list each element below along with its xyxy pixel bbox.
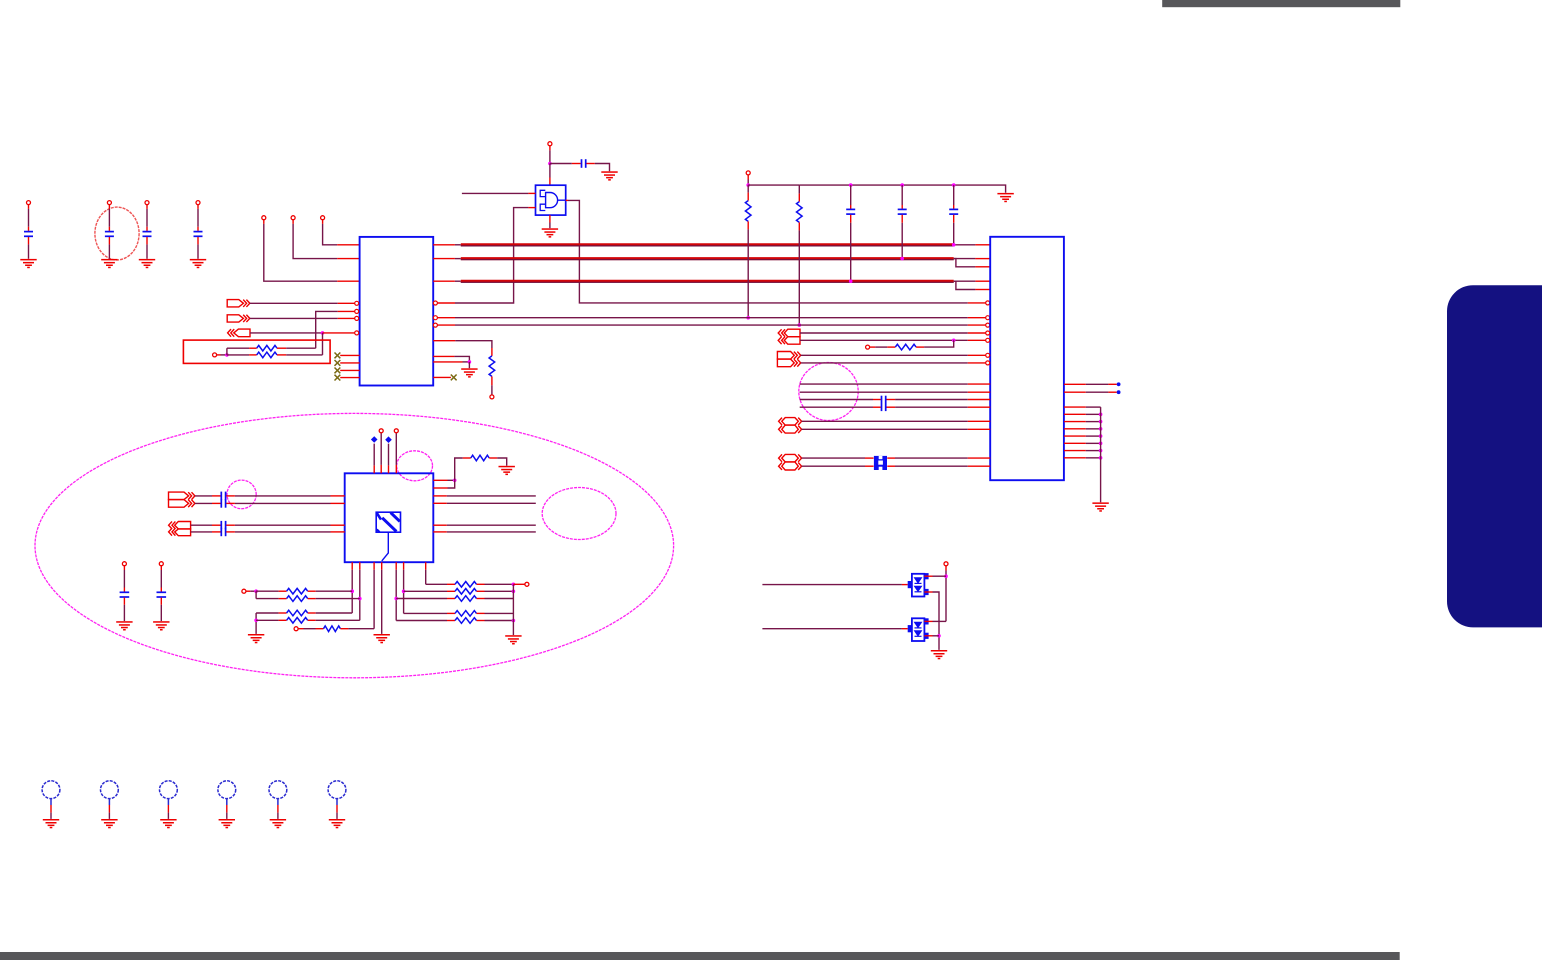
bus2 jog to second U2 pin [954, 259, 976, 267]
bus2 thin continuation to U2 pin [954, 258, 976, 260]
junction of R1/R2 branch [225, 353, 229, 357]
junction on ground riser [1099, 456, 1103, 460]
U3 top pin to terminal 2 [395, 465, 397, 473]
wire terminal to capacitor C4 [197, 205, 199, 209]
resistor R11 row4 [256, 619, 279, 621]
terminal node above capacitor C4 [196, 201, 200, 205]
wire connector to FL1 y=466.2 [802, 465, 865, 467]
ground below C3 [139, 259, 155, 261]
wire connector to cap y=503.4 [195, 502, 212, 504]
ground right of R7 [499, 466, 515, 468]
wire capacitor C1 to ground [28, 237, 30, 244]
wire terminal to junction [217, 354, 221, 356]
wire U3 right pin y=531.9 [433, 531, 447, 533]
junction at ground riser [468, 360, 472, 364]
junction R6 branch [952, 339, 956, 343]
ground below U1 right [461, 368, 477, 370]
wire terminal to capacitor C1 [28, 205, 30, 209]
ground below test point [219, 819, 235, 821]
U1 pin stub bus row y=281.2 [433, 280, 455, 282]
no-connect pin U1 left [340, 362, 359, 364]
wire U1 bubble pin to gate input 2 [433, 301, 437, 305]
power bus wire y=258.6 [461, 257, 954, 260]
resistor R14 row 591.3 [404, 590, 447, 592]
wire to U2 pin y=384.1 [800, 383, 968, 385]
wire U2 ground pin y=428.85 [1064, 428, 1086, 430]
right network ground riser [512, 584, 514, 635]
ground below test point [270, 819, 286, 821]
wire connector to U1 bubble pin [250, 302, 338, 304]
U1 pin stub bus row y=258.6 [433, 258, 455, 260]
mounting hole test point [269, 781, 287, 799]
wire terminal to U1 pin [263, 220, 265, 224]
no-ERC blue dot [1117, 390, 1121, 394]
terminal node [291, 216, 295, 220]
series capacitor y=525.2 [220, 521, 222, 530]
resistor R9 row2 [256, 598, 279, 600]
wire terminal to capacitor C11 [160, 566, 162, 570]
series capacitor y=531.9 [220, 528, 222, 537]
wire branch up to R1 row [226, 348, 228, 355]
resistor R13 row 584.3 [426, 583, 447, 585]
terminal node above R3 [746, 171, 750, 175]
bottom gray footer bar [0, 952, 1400, 960]
dual connector (in) rows MDIO/MDC [778, 329, 781, 336]
wire net to D2 [762, 628, 902, 630]
capacitor C5 [581, 159, 583, 168]
junction C6 to bus [849, 279, 853, 283]
U3 top pin to terminal 1 [380, 465, 382, 473]
terminal node [321, 216, 325, 220]
wire U1 pin to resistor R5 [433, 340, 455, 342]
U3 top pin with no-ERC diamond 1 [373, 465, 375, 473]
resistor R3 (pull-up) [747, 185, 749, 193]
red highlight ellipse around capacitor C2 [95, 207, 139, 260]
U3 bottom pin riser x=352.2 [351, 562, 353, 570]
junction on ground riser [1099, 449, 1103, 453]
resistor R10 row3 [256, 612, 279, 614]
capacitor C7 [901, 185, 903, 205]
bubble pin U1 left 1 [355, 301, 359, 305]
ground below test point [329, 819, 345, 821]
bus1 thin continuation to U2 pin [954, 244, 976, 246]
wire D2 top-right pin [933, 620, 947, 622]
power bus wire y=244.8 [461, 243, 954, 246]
junction R3 on net [746, 316, 750, 320]
wire terminal to capacitor C2 [108, 205, 110, 209]
wire cap to U3 y=531.9 [226, 531, 235, 533]
terminal node [262, 216, 266, 220]
ground left network [248, 634, 264, 636]
wire resistor R2 to pin4 junction [322, 333, 324, 355]
junction on ground riser [1099, 413, 1103, 417]
connector arrow (in) from U1 pin TXEN [228, 329, 231, 337]
ground below U2 [1092, 502, 1108, 504]
dual connector (out) rows LED [777, 352, 794, 360]
wire U2 ground pin y=436.1 [1064, 435, 1086, 437]
junction on ground riser [1099, 442, 1103, 446]
wire junction to terminal [513, 583, 524, 585]
wire U1 pin to ground jog [433, 355, 454, 357]
wire U2 ground pin y=407.1 [1064, 406, 1086, 408]
wire terminal to U1 pin [292, 220, 294, 224]
crystal stem line [382, 532, 389, 561]
mounting hole test point [218, 781, 236, 799]
magenta highlight circle near U3 top-right [397, 451, 433, 481]
wire U3 right pin y=525.2 [433, 524, 447, 526]
wire FL1 to U2 pin y=458.1 [887, 457, 895, 459]
U1 pin stub bus row y=244.8 [433, 244, 455, 246]
wire terminal to junction [747, 175, 749, 180]
wire connector to U2 pin y=421.3 [802, 420, 968, 422]
junction on pin4 wire [321, 331, 325, 335]
ground at top rail [997, 193, 1013, 195]
junction R2' [402, 590, 406, 594]
junction left network [254, 589, 258, 593]
junction row 620.5 [512, 619, 516, 623]
top gray header bar [1162, 0, 1400, 7]
navy side tab [1447, 285, 1542, 627]
ground below test point [101, 819, 117, 821]
junction L2 [358, 597, 362, 601]
terminal node left network [242, 589, 246, 593]
terminal above capacitor C10 [122, 562, 126, 566]
wire terminal down to junction [549, 146, 551, 151]
connector arrow (out) to U1 pin RXD0 [227, 300, 243, 307]
wire gate input 1 net stub [462, 192, 529, 194]
wire capacitor C2 to ground [108, 237, 110, 244]
junction C6 on rail [849, 183, 853, 187]
junction C7 to bus [900, 257, 904, 261]
bubble pin U2 left RST [986, 301, 990, 305]
top rail wire to ground [799, 185, 1005, 193]
no-connect pin U1 left [340, 377, 359, 379]
ESD diode array D1 [912, 574, 925, 597]
wire branch down row2 [255, 591, 257, 598]
wire left ground riser [255, 613, 257, 634]
magenta highlight circle on U3 left wires [227, 480, 256, 509]
ground below C11 [153, 621, 169, 623]
wire connector to cap y=525.2 [191, 524, 212, 526]
junction C8 to bus [952, 243, 956, 247]
terminal node above D1/D2 [944, 562, 948, 566]
resistor R1 [249, 347, 257, 349]
bubble pin U1 left 2 [355, 309, 359, 313]
magenta highlight ellipse (clock section) [35, 413, 674, 677]
IC U2 (PHY transceiver) [990, 237, 1064, 480]
dual bidirectional connector rows TD+/- [779, 418, 782, 425]
wire R1 to vertical riser [286, 347, 316, 349]
wire gate ground pin [549, 215, 551, 222]
wire capacitor C5 to ground [586, 163, 594, 165]
wire connector to U1 bubble pin 4 [250, 332, 323, 334]
wire capacitor C10 to ground [123, 598, 125, 605]
wire U3 right pin y=503.3 [433, 502, 447, 504]
series capacitor y=503.4 [220, 499, 222, 508]
wire cap to U3 y=503.4 [226, 502, 235, 504]
wire connector to U2 pin y=429.3 [802, 428, 968, 430]
wire R3 down to net y=317.7 [747, 229, 749, 317]
wire test point to ground [277, 799, 279, 805]
terminal node above capacitor C3 [145, 201, 149, 205]
ground below gate U4 [542, 228, 558, 230]
junction row 591.3 [512, 590, 516, 594]
junction C8 on rail [952, 183, 956, 187]
dual bidirectional connector rows RD+/- [779, 454, 782, 461]
gate U4 input brackets [540, 190, 545, 196]
wire test point to ground [108, 799, 110, 805]
bubble pin U1 right y=317.7 [433, 316, 437, 320]
capacitor C2 [105, 231, 114, 233]
resistor R12 row5 [298, 628, 303, 630]
wire R2 to riser at pin4 net [286, 354, 322, 356]
junction row4 [254, 619, 258, 623]
wire connector to cap y=531.9 [191, 531, 212, 533]
terminal node above gate U4 [548, 142, 552, 146]
wire test point to ground [226, 799, 228, 805]
junction R7 net [453, 479, 457, 483]
wire terminal down to D2 top pin [945, 566, 947, 571]
junction D1 top-right [944, 574, 948, 578]
wire to U2 pin y=399.5 (cap left) [800, 399, 873, 401]
bus3 jog to second U2 pin [954, 281, 976, 289]
bubble pin U2 y=355.3 [986, 353, 990, 357]
U3 bottom pin riser x=359.8 [359, 562, 361, 570]
capacitor C8 [953, 185, 955, 205]
no-ERC blue dot [1117, 382, 1121, 386]
ground below D1/D2 [931, 650, 947, 652]
junction on ground riser [1099, 427, 1103, 431]
IC U3 (clock generator) [345, 473, 434, 562]
resistor R16 row 613.4 [404, 612, 447, 614]
ground right of C5 [601, 171, 617, 173]
connector arrow (out) to U1 pin RXD1 [227, 315, 243, 322]
U3 bottom pin riser x=374.1 [373, 562, 375, 570]
bubble pin U2 left y=317.7 [986, 316, 990, 320]
wire junction to capacitor C5 [550, 163, 572, 165]
terminal above capacitor C11 [159, 562, 163, 566]
ground right network [505, 635, 521, 637]
ground below C1 [20, 259, 36, 261]
wire R5 to terminal [491, 385, 493, 395]
gate U4 (NAND buffer) [536, 185, 566, 215]
ground below test point [160, 819, 176, 821]
bubble pin U2 left y=325.1 [986, 323, 990, 327]
wire connector to U2 pin y=362.9 [801, 362, 968, 364]
wire D2 bottom-right pin [924, 635, 932, 637]
junction C7 on rail [900, 183, 904, 187]
resistor R5 (pull-down) [491, 348, 493, 356]
junction R4 on net [798, 323, 802, 327]
wire connector to cap y=495.9 [195, 495, 212, 497]
wire test point to ground [167, 799, 169, 805]
wire test point to ground [50, 799, 52, 805]
no-connect pin U1 left [340, 354, 359, 356]
wire second U3 pin to junction [433, 487, 447, 489]
wire U2 ground pin y=414.35 [1064, 413, 1086, 415]
mounting hole test point [101, 781, 119, 799]
IC U1 (LAN controller) [360, 237, 434, 386]
wire connector to U2 pin y=333.0 [800, 332, 968, 334]
bubble pin U2 y=333.0 [986, 331, 990, 335]
wire terminal to capacitor C3 [146, 205, 148, 209]
wire junction down to gate U4 power pin [549, 164, 551, 178]
junction on ground riser [1099, 420, 1103, 424]
wire R4 down to net y=325.1 [798, 230, 800, 325]
wire connector to U1 bubble pin 3 [250, 317, 338, 319]
wire U1 to U2 y=325.1 [438, 324, 456, 326]
wire U2 ground pin y=443.35 [1064, 442, 1086, 444]
gate U4 AND body [546, 193, 558, 208]
power bus wire y=281.2 [461, 280, 954, 283]
wire capacitor C11 to ground [160, 598, 162, 605]
junction at gate VCC node [548, 162, 552, 166]
wire to U2 pin y=407.2 (cap right) [800, 406, 873, 408]
junction right network top [512, 583, 516, 587]
wire U3 right pin y=495.9 [433, 495, 447, 497]
bus3 thin continuation to U2 pin [954, 280, 976, 282]
resistor R2 [227, 354, 249, 356]
ground below C10 [116, 621, 132, 623]
no-connect pin U1 left [340, 369, 359, 371]
filter FL1 [874, 456, 887, 470]
bubble pin U1 left 3 [355, 316, 359, 320]
terminal node above capacitor C1 [27, 201, 31, 205]
terminal node right network [525, 582, 529, 586]
ground below C4 [190, 259, 206, 261]
resistor R17 row 620.5 [396, 620, 447, 622]
mounting hole test point [160, 781, 178, 799]
no-connect pin U1 right [433, 376, 451, 378]
wire gate output to U2 [566, 199, 568, 201]
U3 top pin with no-ERC diamond 2 [388, 465, 390, 473]
wire terminal to junction [246, 590, 250, 592]
resistor R7 to ground [455, 458, 463, 480]
junction R3 top [746, 183, 750, 187]
dual connector (in) clock out [169, 522, 172, 529]
resistor R6 [870, 346, 876, 348]
U3 bottom pin riser x=425.7 [425, 562, 427, 570]
wire cap to U3 y=525.2 [226, 524, 235, 526]
resistor R15 row 598.5 [396, 598, 447, 600]
terminal node left of R6 [866, 345, 870, 349]
wire R3 top to R4 top [748, 184, 799, 186]
ground below test point [43, 819, 59, 821]
wire test point to ground [336, 799, 338, 805]
mounting hole test point [328, 781, 346, 799]
wire U1 pin to ground [433, 361, 462, 363]
red highlight box around R1 R2 [183, 340, 330, 363]
junction L1 [350, 589, 354, 593]
wire U2 right pin y=392.2 to no-ERC dot [1064, 391, 1086, 393]
capacitor C1 [24, 231, 33, 233]
wire D1 bottom-right to ground riser [924, 591, 932, 593]
wire U3 pin to R7 junction [433, 479, 447, 481]
bubble pin U2 y=362.9 [986, 361, 990, 365]
wire terminal to capacitor C10 [123, 566, 125, 570]
wire to U2 pin y=392.2 [800, 391, 968, 393]
wire R6 to junction [924, 340, 954, 347]
junction D2 bottom-right [937, 634, 941, 638]
wire U2 right pin y=384.3 to no-ERC dot [1064, 383, 1086, 385]
resistor R8 row1 [256, 590, 279, 592]
bubble pin U1 right y=325.1 [433, 323, 437, 327]
capacitor C11 [157, 591, 167, 593]
mounting hole test point [42, 781, 60, 799]
capacitor C9 [881, 396, 883, 411]
resistor R4 (pull-up) [798, 185, 800, 194]
wire terminal to U1 pin [322, 220, 324, 224]
junction R3' [394, 597, 398, 601]
junction on ground riser [1099, 434, 1103, 438]
dual connector (out) clock in [169, 492, 189, 500]
wire net to D1 [762, 584, 902, 586]
capacitor C6 [850, 185, 852, 205]
bubble pin U1 left 4 [355, 331, 359, 335]
series capacitor y=495.9 [220, 492, 222, 501]
wire capacitor C3 to ground [146, 237, 148, 244]
capacitor C10 [120, 591, 130, 593]
capacitor C3 [143, 231, 152, 233]
U3 bottom pin riser x=396.2 [395, 562, 397, 570]
wire capacitor C4 to ground [197, 237, 199, 244]
ground riser wire [1100, 407, 1102, 502]
wire cap to U3 y=495.9 [226, 495, 235, 497]
magenta highlight ellipse right of U3 [542, 488, 616, 540]
magenta highlight circle on U2 left wires [799, 363, 858, 421]
capacitor C4 [194, 231, 203, 233]
U3 bottom pin riser x=403.6 [403, 562, 405, 570]
ESD diode array D2 [912, 618, 925, 641]
wire FL1 to U2 pin y=466.2 [887, 465, 895, 467]
wire connector to U2 pin y=355.3 [801, 354, 968, 356]
wire U2 ground pin y=421.6 [1064, 421, 1086, 423]
wire U2 ground pin y=450.6 [1064, 450, 1086, 452]
wire resistor net to U1 bubble pin 2 [316, 311, 338, 348]
ground below U3 [374, 634, 390, 636]
bubble pin U2 y=340.3 [986, 338, 990, 342]
terminal node above capacitor C2 [107, 201, 111, 205]
terminal node below R5 [490, 395, 494, 399]
wire U1 to U2 y=317.7 [438, 317, 456, 319]
terminal node of resistor pair [213, 353, 217, 357]
wire connector to FL1 y=458.1 [802, 457, 865, 459]
wire connector to U2 pin y=340.3 [800, 339, 968, 341]
U3 bottom pin riser x=381.7 to ground [381, 562, 383, 570]
ground below C2 [101, 259, 117, 261]
wire D1 top-right pin [924, 575, 932, 577]
terminal node R12 [294, 627, 298, 631]
crystal symbol inside U3 [376, 512, 400, 532]
wire U2 ground pin y=457.85 [1064, 457, 1086, 459]
